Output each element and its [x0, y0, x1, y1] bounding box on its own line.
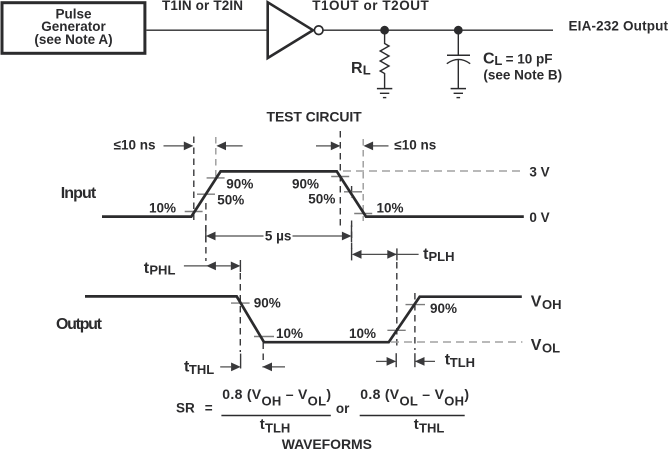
svg-text:T1OUT or T2OUT: T1OUT or T2OUT: [312, 0, 429, 13]
svg-text:TLH: TLH: [265, 421, 290, 436]
svg-text:(see Note B): (see Note B): [483, 68, 562, 83]
svg-text:0 V: 0 V: [529, 210, 549, 225]
svg-text:90%: 90%: [254, 296, 281, 311]
svg-text:or: or: [336, 401, 350, 416]
svg-text:PHL: PHL: [149, 263, 175, 278]
svg-text:10%: 10%: [276, 326, 303, 341]
svg-text:L: L: [494, 53, 502, 68]
svg-text:≤10 ns: ≤10 ns: [394, 138, 436, 153]
svg-text:90%: 90%: [226, 176, 253, 191]
svg-text:OL: OL: [542, 340, 560, 355]
svg-text:OH: OH: [542, 297, 562, 312]
svg-text:EIA-232 Output: EIA-232 Output: [569, 18, 669, 33]
svg-text:THL: THL: [189, 362, 214, 377]
svg-text:3 V: 3 V: [529, 164, 549, 179]
svg-text:Input: Input: [61, 185, 97, 202]
svg-text:10%: 10%: [349, 326, 376, 341]
svg-text:(see Note A): (see Note A): [34, 32, 112, 47]
svg-text:T1IN or T2IN: T1IN or T2IN: [162, 0, 243, 13]
svg-text:V: V: [531, 337, 542, 354]
svg-text:t: t: [414, 416, 419, 433]
svg-text:SR: SR: [176, 401, 195, 416]
svg-text:10%: 10%: [149, 200, 176, 215]
svg-text:t: t: [260, 416, 265, 433]
svg-text:5 µs: 5 µs: [265, 228, 292, 243]
svg-text:=: =: [205, 401, 213, 416]
svg-text:90%: 90%: [292, 176, 319, 191]
svg-text:THL: THL: [419, 421, 444, 436]
svg-text:V: V: [531, 293, 542, 310]
svg-text:C: C: [483, 51, 495, 68]
svg-text:50%: 50%: [308, 192, 335, 207]
svg-text:TLH: TLH: [450, 355, 475, 370]
svg-text:L: L: [363, 63, 371, 78]
svg-text:WAVEFORMS: WAVEFORMS: [282, 436, 372, 451]
svg-text:R: R: [351, 60, 363, 77]
svg-text:= 10 pF: = 10 pF: [506, 52, 553, 67]
svg-text:PLH: PLH: [429, 249, 455, 264]
svg-text:TEST CIRCUIT: TEST CIRCUIT: [267, 108, 363, 124]
svg-text:≤10 ns: ≤10 ns: [114, 138, 156, 153]
svg-text:Output: Output: [56, 316, 103, 333]
svg-text:90%: 90%: [430, 301, 457, 316]
svg-text:10%: 10%: [377, 200, 404, 215]
svg-text:50%: 50%: [217, 192, 244, 207]
